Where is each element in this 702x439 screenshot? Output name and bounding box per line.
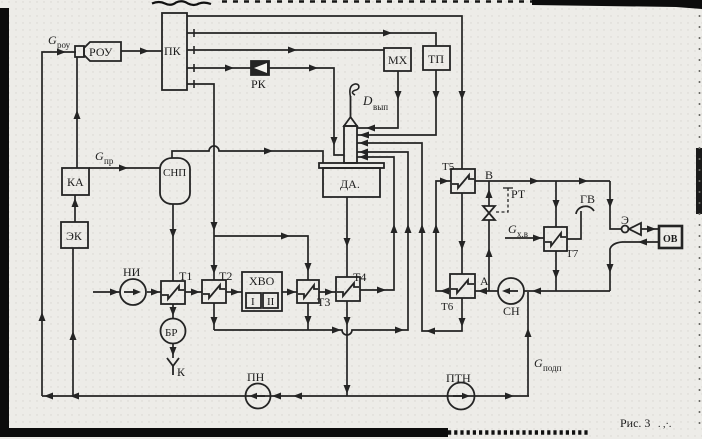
svg-text:ПН: ПН bbox=[247, 370, 265, 384]
РК valve bbox=[251, 61, 269, 75]
arrow down Т7 drain bbox=[553, 270, 560, 279]
СН pump bbox=[498, 278, 524, 304]
vent line bbox=[350, 96, 352, 117]
scan artifact: top-right black bar bbox=[532, 0, 702, 9]
arrow down Т1 to БР bbox=[170, 307, 177, 316]
arrow Т4 outlet bbox=[377, 287, 386, 294]
arrow down Т4 drain lower bbox=[344, 385, 351, 394]
arrow down into Т2 bbox=[211, 265, 218, 274]
wire РК to deaerator column left bbox=[269, 68, 344, 155]
arrow left ОВ return bbox=[638, 239, 647, 246]
arrow up into РОУ bbox=[74, 110, 81, 119]
arrow down В to Т7 bbox=[553, 200, 560, 209]
arrow up into ЭК bbox=[70, 331, 77, 340]
arrows bbox=[39, 30, 657, 400]
arrow СНП outlet bbox=[264, 148, 273, 155]
wire ПК line L4 to РК bbox=[187, 67, 251, 69]
wire ЭК riser from bottom line bbox=[72, 248, 74, 396]
scan artifact: left black border bbox=[0, 8, 9, 429]
arrow РК output bbox=[309, 65, 318, 72]
svg-text:Т4: Т4 bbox=[353, 270, 366, 284]
wire L5 branch to Т3 bbox=[214, 236, 308, 280]
svg-text:СНП: СНП bbox=[163, 167, 186, 179]
wire Т7 cold water feed bbox=[505, 237, 544, 239]
wire МХ drain to column bbox=[357, 71, 398, 128]
arrow up А riser lower bbox=[486, 248, 493, 257]
arrow left into Т6 from А bbox=[478, 288, 487, 295]
arrow down into Т3 bbox=[305, 263, 312, 272]
arrow down МХ drain bbox=[395, 91, 402, 100]
arrow up Т5 feed riser bbox=[433, 224, 440, 233]
arrow down Э outlet bbox=[607, 264, 614, 273]
arrow into column y143 bbox=[359, 140, 368, 147]
wire ХВО to Т3 bbox=[282, 291, 297, 293]
Т2 heat exchanger bbox=[202, 280, 226, 303]
arrow into РОУ junction bbox=[57, 49, 66, 56]
wire left outer loop bbox=[42, 52, 76, 396]
wire ДА bottom to Т4 bbox=[346, 197, 348, 277]
svg-text:СН: СН bbox=[503, 304, 520, 318]
arrow L4 to РК line bbox=[225, 65, 234, 72]
arrow НИ to Т1 bbox=[151, 289, 160, 296]
svg-text:Рис. 3: Рис. 3 bbox=[620, 416, 650, 430]
arrow up drains riser bbox=[405, 224, 412, 233]
svg-text:ХВО: ХВО bbox=[249, 274, 275, 288]
svg-text:ДА.: ДА. bbox=[340, 177, 360, 191]
wire СН suction line bbox=[524, 290, 610, 292]
svg-text:Т2: Т2 bbox=[219, 269, 232, 283]
arrow Т3 to Т4 bbox=[325, 289, 334, 296]
wire G_пр КА to СНП bbox=[89, 167, 160, 169]
wire ПК line L2 to ТП bbox=[187, 33, 436, 46]
arrow L3 bbox=[288, 47, 297, 54]
arrow left into СН bbox=[532, 288, 541, 295]
svg-text:ЭК: ЭК bbox=[66, 229, 83, 243]
wire L5 branch to Т2 bbox=[213, 236, 215, 280]
svg-text:РК: РК bbox=[251, 77, 267, 91]
wire ПК line L3 to МХ bbox=[187, 49, 384, 51]
wire Т5 outlet В line bbox=[475, 180, 610, 182]
wire Т7 drain to СН line bbox=[555, 251, 557, 291]
scan artifact: right edge dark blob bbox=[696, 148, 702, 214]
arrow up into КА bbox=[72, 198, 79, 207]
arrow G_пр bbox=[119, 165, 128, 172]
arrow up left loop bbox=[39, 312, 46, 321]
wire Т4 bottom to bottom line bbox=[346, 301, 348, 396]
arrow left Т6 drain header bbox=[426, 328, 435, 335]
arrow down РК line bbox=[331, 137, 338, 146]
scan artifact: bottom dotted continuation bbox=[448, 430, 590, 435]
scan artifact: bottom black bar bbox=[0, 428, 448, 437]
arrow left right of ПН bbox=[293, 393, 302, 400]
wire НИ to Т1 bbox=[147, 291, 161, 293]
Т3 heat exchanger bbox=[297, 280, 319, 303]
НИ pump bbox=[120, 279, 146, 305]
wire ПК line L1 to Т5 bbox=[187, 16, 462, 169]
svg-text:РОУ: РОУ bbox=[89, 45, 113, 59]
svg-text:Э: Э bbox=[621, 213, 629, 227]
arrow down Э feed bbox=[607, 199, 614, 208]
Э ejector nozzle triangle bbox=[629, 223, 641, 235]
wire Т2 drain bbox=[213, 303, 215, 330]
БР pump circle bbox=[161, 319, 186, 344]
svg-text:. ,·.: . ,·. bbox=[658, 419, 671, 430]
svg-text:G: G bbox=[95, 149, 104, 163]
boxes and components bbox=[61, 13, 682, 410]
arrow Т2 to ХВО bbox=[231, 289, 240, 296]
arrow L2 bbox=[383, 30, 392, 37]
wire А riser through РТ valve to В bbox=[488, 220, 490, 291]
svg-text:вып: вып bbox=[373, 102, 388, 112]
svg-text:Т3: Т3 bbox=[317, 295, 330, 309]
arrow up G_подп bbox=[525, 328, 532, 337]
arrow right into Т5 bbox=[440, 178, 449, 185]
Т7 heat exchanger bbox=[544, 227, 567, 251]
svg-text:БР: БР bbox=[165, 327, 177, 339]
arrow down L5 bbox=[211, 222, 218, 231]
arrow into НИ bbox=[110, 289, 119, 296]
ГВ tap bbox=[576, 206, 594, 214]
ПТН pump bbox=[448, 383, 475, 410]
arrow ХВО to Т3 bbox=[287, 289, 296, 296]
vent symbol bbox=[350, 84, 359, 97]
wire Т3 to Т4 bbox=[319, 291, 336, 293]
svg-text:G: G bbox=[534, 356, 543, 370]
arrow РОУ to ПК bbox=[140, 48, 149, 55]
arrow down Т5 to Т6 bbox=[459, 241, 466, 250]
wire Т1 to Т2 bbox=[185, 291, 202, 293]
wire Т7 outlet to ГВ tap bbox=[567, 211, 581, 239]
arrow into column y157 bbox=[359, 154, 368, 161]
arrow right on drain header after hop bbox=[395, 327, 404, 334]
arrow up Т4 riser bbox=[391, 224, 398, 233]
wire БР to К drain bbox=[172, 343, 174, 358]
svg-text:ПК: ПК bbox=[164, 44, 182, 58]
svg-text:ГВ: ГВ bbox=[580, 192, 595, 206]
svg-text:В: В bbox=[485, 168, 493, 182]
arrow right G_х.в bbox=[533, 235, 542, 242]
arrow down БР to К bbox=[170, 347, 177, 356]
arrow right after ПТН bbox=[505, 393, 514, 400]
arrow right В line 2 bbox=[579, 178, 588, 185]
scan artifact: top dotted edge bbox=[222, 0, 532, 3]
wire Э outlet curve down bbox=[610, 242, 622, 291]
wire РОУ to ПК bbox=[121, 50, 162, 52]
ОВ box bbox=[659, 226, 682, 248]
wire КА to РОУ junction bbox=[76, 57, 78, 168]
wire ejector to ОВ bbox=[641, 228, 659, 230]
wire Т6 drain to riser x422 bbox=[357, 143, 462, 331]
ХВО box bbox=[242, 272, 282, 311]
wire Т4 outlet riser to column inlet y157 bbox=[357, 157, 394, 290]
arrow down L1 into Т5 bbox=[459, 91, 466, 100]
КА box bbox=[62, 168, 89, 195]
wire G_подп riser bbox=[527, 292, 529, 396]
Т1 heat exchanger bbox=[161, 281, 185, 304]
arrow right В line 1 bbox=[530, 178, 539, 185]
arrow down Т6 drain bbox=[459, 318, 466, 327]
РТ control valve bbox=[483, 206, 495, 220]
Э ejector circle bbox=[622, 226, 629, 233]
arrow into column y128 bbox=[366, 125, 375, 132]
wire bottom return line bbox=[42, 395, 529, 397]
wire drains header y330 to riser x408 (hop under ДА line) bbox=[214, 152, 408, 335]
deaerator column bbox=[344, 117, 357, 163]
wire ОВ return bbox=[622, 241, 659, 243]
wire СН to А to Т6 bbox=[475, 290, 498, 292]
МХ box bbox=[384, 48, 411, 71]
wire Т5 through Т6 bbox=[461, 193, 463, 274]
wire СНП top outlet to ДА tank (with hop over L5) bbox=[172, 146, 323, 163]
arrow down ТП drain bbox=[433, 91, 440, 100]
svg-text:ОВ: ОВ bbox=[663, 234, 678, 245]
Т6 heat exchanger bbox=[450, 274, 475, 298]
arrow into column y135 bbox=[359, 132, 369, 139]
Т4 heat exchanger bbox=[336, 277, 360, 301]
wire Т1 drain to БР bbox=[172, 304, 174, 318]
svg-text:II: II bbox=[267, 296, 275, 308]
wire raw water inlet to НИ bbox=[93, 291, 120, 293]
arrow up А riser upper bbox=[486, 189, 493, 198]
scan artifact: top scribble bbox=[152, 1, 211, 5]
wire ТП drain to column bbox=[357, 70, 436, 135]
svg-text:пр: пр bbox=[104, 156, 114, 166]
arrow up Т6 riser bbox=[419, 224, 426, 233]
svg-text:ПТН: ПТН bbox=[446, 371, 471, 385]
svg-text:Т5: Т5 bbox=[442, 161, 455, 173]
arrow left into ПН bbox=[272, 393, 281, 400]
svg-text:Т1: Т1 bbox=[179, 269, 192, 283]
arrow right on drain header bbox=[332, 327, 341, 334]
deaerator tank ДА bbox=[319, 163, 384, 197]
boiler ПК bbox=[162, 13, 187, 90]
wire ЭК to КА bbox=[74, 195, 76, 222]
svg-text:I: I bbox=[251, 296, 255, 308]
wire СНП drain to Т1 bbox=[172, 204, 174, 281]
wire Т2 to ХВО bbox=[226, 291, 242, 293]
svg-text:ТП: ТП bbox=[428, 52, 444, 66]
wire Т5 feed riser from Т6 bbox=[436, 181, 451, 291]
svg-text:НИ: НИ bbox=[123, 265, 141, 279]
wire Т3 drain bbox=[307, 303, 309, 330]
svg-text:РТ: РТ bbox=[511, 187, 526, 201]
СНП vessel bbox=[160, 158, 190, 204]
svg-text:Т6: Т6 bbox=[441, 301, 454, 313]
svg-text:D: D bbox=[362, 93, 373, 108]
tick marks on ПК outlet lines bbox=[193, 29, 195, 88]
arrow left on bottom line near corner bbox=[44, 393, 53, 400]
wire В drop to Т7 bbox=[555, 181, 557, 227]
arrow left on bottom line right of ЭК riser bbox=[70, 393, 79, 400]
svg-text:G: G bbox=[48, 33, 57, 47]
arrow Т1 to Т2 bbox=[191, 289, 200, 296]
svg-text:А: А bbox=[480, 274, 489, 288]
svg-text:подп: подп bbox=[543, 363, 562, 373]
РОУ reducer bbox=[75, 42, 121, 61]
svg-text:К: К bbox=[177, 365, 186, 379]
svg-text:КА: КА bbox=[67, 175, 84, 189]
svg-text:G: G bbox=[508, 222, 517, 236]
arrow right into ОВ bbox=[647, 226, 656, 233]
ПН pump bbox=[246, 384, 271, 409]
arrow down Т3 drain bbox=[305, 316, 312, 325]
arrow СНП drain bbox=[170, 229, 177, 238]
arrow into column y152 bbox=[359, 149, 368, 156]
arrow right L5 branch bbox=[281, 233, 290, 240]
svg-text:Т7: Т7 bbox=[566, 248, 579, 260]
svg-text:х.в: х.в bbox=[517, 229, 528, 239]
ТП box bbox=[423, 46, 450, 70]
К drain funnel bbox=[167, 358, 179, 375]
svg-text:роу: роу bbox=[57, 40, 71, 50]
svg-text:МХ: МХ bbox=[388, 53, 408, 67]
arrow down Т4 drain upper bbox=[344, 317, 351, 326]
scan artifact: right edge dotted strip bbox=[699, 15, 701, 430]
ЭК box bbox=[61, 222, 88, 248]
Т5 heat exchanger bbox=[451, 169, 475, 193]
РТ dashed actuator bbox=[496, 188, 508, 212]
arrow left Т6 outlet to riser bbox=[440, 288, 449, 295]
wire ПК line L5 down bbox=[187, 84, 214, 236]
arrow down Т2 drain bbox=[211, 317, 218, 326]
arrow down ДА to Т4 bbox=[344, 238, 351, 247]
wire Э feed from В line bbox=[610, 181, 621, 229]
